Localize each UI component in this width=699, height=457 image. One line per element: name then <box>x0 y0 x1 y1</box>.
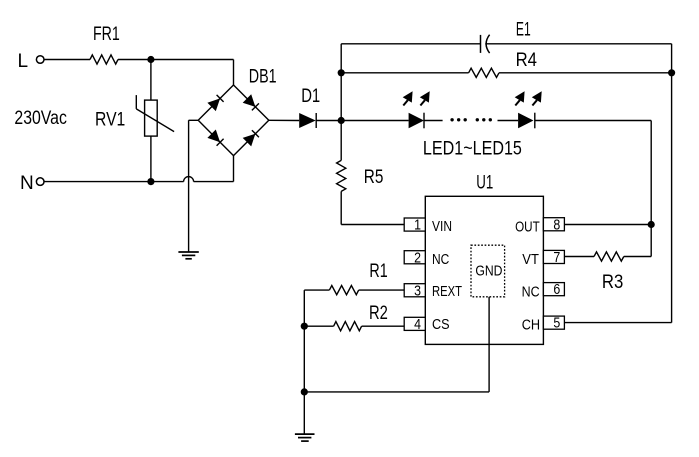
pin 4 box <box>404 317 425 330</box>
capacitor E1 curved plate <box>486 35 490 53</box>
terminal N <box>36 178 44 186</box>
wire E1 right <box>485 43 671 45</box>
svg-text:3: 3 <box>414 283 421 299</box>
pin 8 box <box>543 218 564 231</box>
wire D1 to node <box>316 120 341 122</box>
node L junction <box>147 56 154 63</box>
node R4 right <box>668 69 675 76</box>
wire LED15 out <box>535 120 651 122</box>
bridge diode bottom-right <box>243 134 256 147</box>
wire RV1 to N <box>150 136 152 182</box>
varistor RV1 body <box>145 100 158 136</box>
wire R1 to pin 3 <box>359 289 405 291</box>
svg-text:REXT: REXT <box>432 284 462 300</box>
svg-text:OUT: OUT <box>515 219 540 235</box>
bridge diode left-bottom <box>207 130 220 143</box>
wire hop to bridge bottom <box>194 181 234 183</box>
wire node to R5 <box>340 121 342 161</box>
bridge diode left-top <box>207 98 220 111</box>
wire LED string down to OUT <box>650 121 652 225</box>
svg-text:RV1: RV1 <box>95 109 125 130</box>
wire FR1 to bridge top <box>118 59 234 61</box>
pin 1 box <box>404 218 425 231</box>
svg-text:CS: CS <box>432 317 450 333</box>
svg-text:E1: E1 <box>516 19 531 40</box>
wire R4 left <box>341 72 468 74</box>
diode D1 <box>299 113 316 128</box>
wire L to FR1 <box>44 59 90 61</box>
wire R5 down <box>340 191 342 224</box>
ground (bridge negative) <box>178 252 198 259</box>
svg-text:VT: VT <box>522 252 539 268</box>
resistor R2 <box>334 322 362 331</box>
svg-text:NC: NC <box>522 284 540 300</box>
wire down to bridge top corner <box>233 60 235 86</box>
svg-text:L: L <box>18 51 29 72</box>
GND dashed box <box>471 245 505 297</box>
svg-text:230Vac: 230Vac <box>14 108 67 129</box>
svg-text:8: 8 <box>553 217 560 233</box>
pin 5 box <box>543 316 564 329</box>
resistor R4 <box>469 68 499 77</box>
svg-text:NC: NC <box>432 252 449 268</box>
LED light arrow 1 <box>403 91 413 105</box>
wire junction to RV1 <box>150 60 152 101</box>
LED light arrow 2 <box>420 91 430 105</box>
svg-text:DB1: DB1 <box>249 66 277 87</box>
node N junction <box>147 178 154 185</box>
svg-text:R1: R1 <box>369 261 387 282</box>
wire R2 to pin 4 <box>362 325 405 327</box>
svg-text:4: 4 <box>414 317 421 333</box>
wire hop over ground wire <box>184 177 194 182</box>
LED LED1 <box>409 113 424 129</box>
wire pin 8 OUT <box>564 224 651 226</box>
bridge DB1 diamond <box>198 85 269 156</box>
svg-text:1: 1 <box>414 218 421 234</box>
bridge diode top-right <box>243 94 256 107</box>
svg-text:VIN: VIN <box>432 219 452 235</box>
resistor R5 <box>337 160 346 191</box>
svg-text:U1: U1 <box>476 172 493 193</box>
node OUT <box>648 221 655 228</box>
wire to LED15 <box>498 120 519 122</box>
wire R4 right <box>499 72 672 74</box>
wire node up to E1 line <box>340 44 342 121</box>
svg-text:2: 2 <box>414 250 421 266</box>
varistor RV1 diagonal tick <box>135 95 137 109</box>
LED light arrow 3 <box>515 91 525 105</box>
capacitor E1 straight plate <box>480 35 482 53</box>
wire R2 left <box>304 325 333 327</box>
wire to pin 1 VIN <box>341 224 404 226</box>
svg-text:N: N <box>20 173 34 194</box>
wire pin 7 VT <box>564 256 594 258</box>
wire R3 right <box>624 256 651 258</box>
wire to ground <box>188 120 190 252</box>
wire GND down <box>488 297 490 392</box>
LED LED15 <box>518 113 533 129</box>
pin 3 box <box>404 284 425 297</box>
resistor FR1 <box>90 55 118 64</box>
svg-text:7: 7 <box>553 250 560 266</box>
wire up to bridge bottom corner <box>233 156 235 182</box>
wire GND return <box>304 391 489 393</box>
pin 2 box <box>404 251 425 264</box>
terminal L <box>36 56 44 64</box>
svg-text:R3: R3 <box>602 272 623 293</box>
svg-text:CH: CH <box>522 317 540 333</box>
varistor RV1 diagonal <box>136 109 174 132</box>
node R4 left <box>338 69 345 76</box>
svg-text:R2: R2 <box>369 303 388 324</box>
wire LED1 out <box>424 120 443 122</box>
svg-text:LED1~LED15: LED1~LED15 <box>423 138 522 159</box>
wire left bias vertical <box>303 290 305 433</box>
svg-text:FR1: FR1 <box>93 24 120 45</box>
svg-text:D1: D1 <box>301 86 320 107</box>
svg-text:GND: GND <box>475 264 502 280</box>
svg-text:R5: R5 <box>364 167 384 188</box>
wire node to LED1 <box>341 120 408 122</box>
svg-text:R4: R4 <box>516 50 538 71</box>
LED light arrow 4 <box>532 91 542 105</box>
wire bridge to D1 <box>269 119 299 121</box>
wire bridge left corner <box>189 119 199 121</box>
svg-text:5: 5 <box>553 316 560 332</box>
ellipsis dots LED string <box>450 118 453 121</box>
wire OUT down to R3 <box>650 225 652 257</box>
wire N to hop <box>44 181 184 183</box>
wire right vertical to CH <box>671 44 673 323</box>
resistor R1 <box>329 286 358 295</box>
ground (signal) <box>295 434 315 441</box>
pin 7 box <box>543 250 564 263</box>
resistor R3 <box>594 252 624 261</box>
wire R1 left <box>304 289 329 291</box>
node R2 <box>301 323 308 330</box>
wire to pin 5 CH <box>564 322 671 324</box>
pin 6 box <box>543 283 564 296</box>
node GND return <box>301 388 308 395</box>
svg-text:6: 6 <box>553 282 560 298</box>
IC U1 body <box>425 196 543 344</box>
node VIN rail <box>338 117 345 124</box>
wire E1 left <box>341 43 480 45</box>
